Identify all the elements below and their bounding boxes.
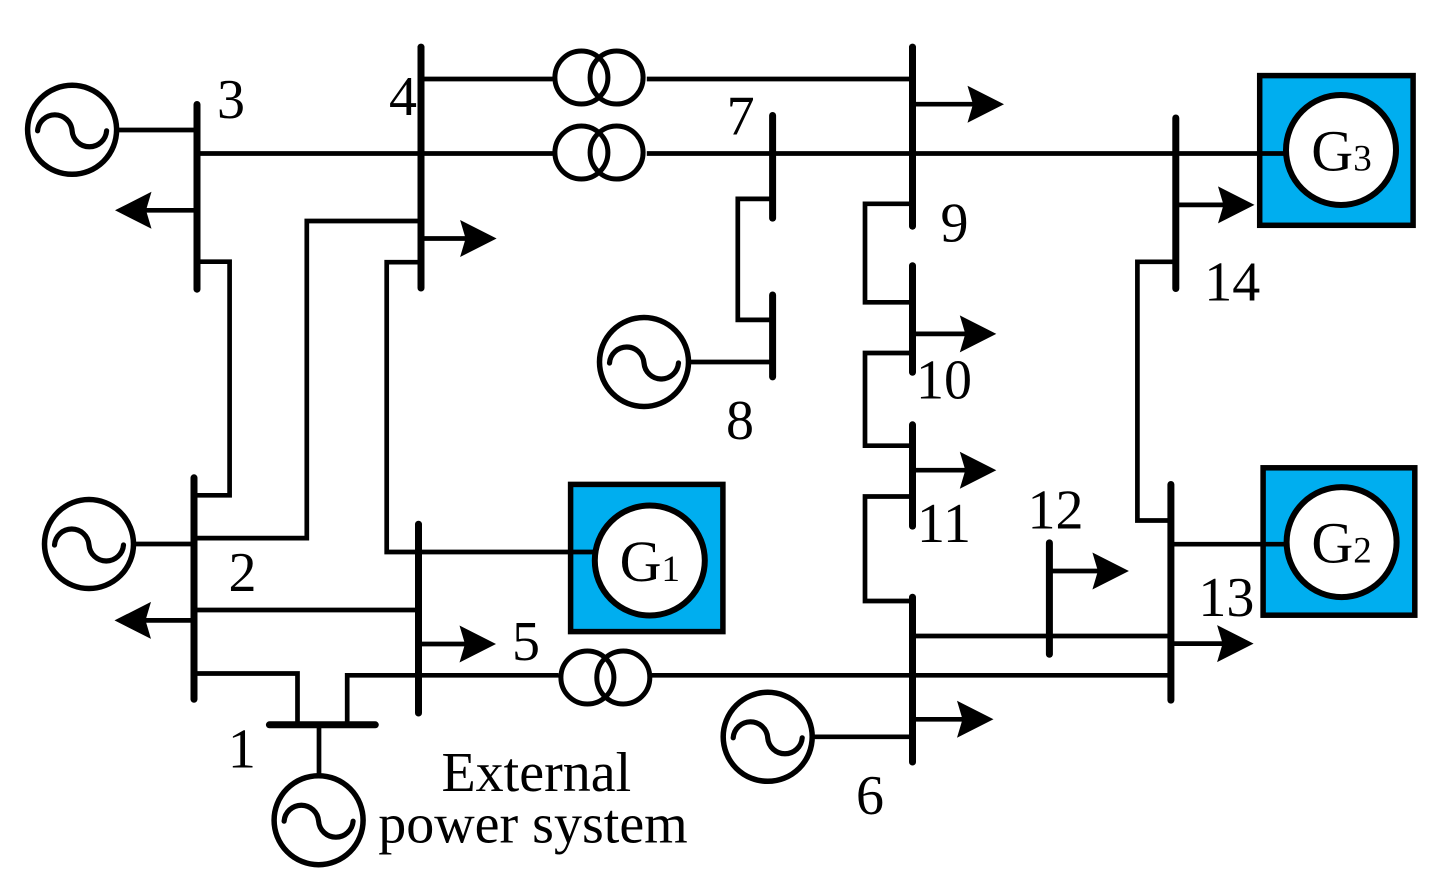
load arrow bus 4 (right) bbox=[421, 220, 497, 257]
svg-text:9: 9 bbox=[941, 192, 969, 254]
svg-text:3: 3 bbox=[217, 69, 245, 131]
label G3 bbox=[1311, 118, 1371, 183]
svg-text:4: 4 bbox=[389, 66, 417, 128]
generator symbol at bus 8 bbox=[600, 318, 689, 407]
label G1 bbox=[620, 529, 680, 594]
wire generator to bus 3 bbox=[72, 128, 197, 133]
svg-text:8: 8 bbox=[726, 390, 754, 452]
node label 3 bbox=[217, 69, 245, 131]
generator symbol at bus 6 bbox=[723, 692, 812, 781]
wire elbow bus9 to bus10 bbox=[865, 204, 913, 302]
svg-text:5: 5 bbox=[512, 611, 540, 673]
bus 3 bbox=[194, 105, 201, 290]
wire elbow bus14 to bus13 bbox=[1137, 262, 1175, 521]
wire long line transformer-bus7-bus9-bus14-G3 (y=153.5) bbox=[647, 151, 1286, 156]
bus 10 bbox=[909, 266, 916, 373]
bus 14 bbox=[1172, 118, 1179, 289]
wire elbow bus2 to bus1 bbox=[194, 674, 298, 724]
node label 14 bbox=[1204, 251, 1260, 313]
svg-text:14: 14 bbox=[1204, 251, 1260, 313]
load arrow bus 9 (right) bbox=[913, 86, 1005, 123]
wire generator to bus 8 bbox=[644, 360, 773, 365]
bus 8 bbox=[769, 295, 776, 377]
svg-text:12: 12 bbox=[1028, 479, 1084, 541]
generator G1 circle bbox=[595, 506, 705, 616]
svg-text:2: 2 bbox=[229, 542, 257, 604]
generator symbol external power system at bus 1 bbox=[274, 776, 363, 865]
svg-text:1: 1 bbox=[228, 719, 256, 781]
node label 6 bbox=[856, 765, 884, 827]
load arrow bus 12 (right) bbox=[1049, 553, 1129, 590]
generator G2 circle bbox=[1287, 487, 1397, 597]
bus 6 bbox=[909, 597, 916, 762]
wire line 2-5 bbox=[194, 608, 419, 613]
load arrow bus 2 (left) bbox=[115, 602, 195, 639]
load arrow bus 13 (right) bbox=[1171, 625, 1254, 662]
load arrow bus 14 (right) bbox=[1176, 186, 1255, 223]
generator symbol at bus 3 bbox=[28, 85, 117, 174]
svg-text:13: 13 bbox=[1198, 567, 1254, 629]
label G2 bbox=[1311, 511, 1371, 576]
wire bus13 to G2 bbox=[1171, 542, 1286, 547]
wire line 4-9 left segment (to transformer) bbox=[421, 77, 553, 82]
bus 11 bbox=[909, 425, 916, 526]
wire long line bus3-bus4-transformer (y=153.5) bbox=[197, 151, 553, 156]
generator box G1 (cyan square at bus 5) bbox=[571, 484, 723, 631]
node label 9 bbox=[941, 192, 969, 254]
bus 9 bbox=[909, 47, 916, 226]
transformer line 5-6 bbox=[561, 651, 650, 704]
wire elbow bus11 to bus6 bbox=[865, 497, 913, 602]
wire elbow bus1 to bus5 and transformer bbox=[347, 675, 558, 723]
generator box G2 (cyan square at bus 13) bbox=[1263, 468, 1415, 615]
bus 7 bbox=[769, 116, 776, 219]
bus 4 bbox=[418, 47, 425, 288]
generator symbol at bus 2 bbox=[45, 500, 134, 589]
node label 13 bbox=[1198, 567, 1254, 629]
node label 5 bbox=[512, 611, 540, 673]
node label 8 bbox=[726, 390, 754, 452]
node label 10 bbox=[916, 350, 972, 412]
wire line transformer to bus6 to bus13 (y=675.3) bbox=[652, 673, 1171, 678]
wire line 4-9 right segment (transformer to bus 9) bbox=[647, 77, 913, 82]
bus 13 bbox=[1167, 485, 1174, 701]
wire elbow bus7 to bus8 bbox=[738, 199, 773, 320]
node label 1 bbox=[228, 719, 256, 781]
load arrow bus 11 (right) bbox=[913, 452, 997, 489]
svg-text:10: 10 bbox=[916, 350, 972, 412]
wire line 6-12-13 bbox=[913, 634, 1171, 639]
bus 2 bbox=[191, 478, 198, 700]
wire external generator to bus 1 bbox=[317, 725, 322, 820]
transformer line 4-9 bbox=[555, 51, 643, 104]
generator box G3 (cyan square at bus 14) bbox=[1260, 76, 1413, 226]
load arrow bus 5 (right) bbox=[419, 626, 497, 663]
node label 4 bbox=[389, 66, 417, 128]
bus 1 (horizontal) bbox=[269, 721, 375, 728]
svg-text:power system: power system bbox=[378, 793, 688, 855]
text External power system line 1 bbox=[441, 742, 631, 804]
generator G3 circle bbox=[1286, 95, 1396, 205]
wire elbow bus3 to bus2 bbox=[194, 262, 230, 496]
load arrow bus 10 (right) bbox=[913, 315, 997, 352]
transformer line 4-7 bbox=[555, 126, 643, 179]
bus 5 bbox=[415, 524, 422, 713]
node label 7 bbox=[727, 86, 755, 148]
bus 12 bbox=[1046, 543, 1053, 654]
node label 2 bbox=[229, 542, 257, 604]
wire elbow bus4 to bus2 bbox=[194, 221, 421, 538]
svg-text:11: 11 bbox=[917, 493, 971, 555]
node label 11 bbox=[917, 493, 971, 555]
load arrow bus 3 (left) bbox=[115, 192, 197, 229]
wire generator to bus 2 bbox=[89, 542, 194, 547]
text External power system line 2 bbox=[378, 793, 688, 855]
svg-text:7: 7 bbox=[727, 86, 755, 148]
load arrow bus 6 (right) bbox=[913, 701, 994, 738]
svg-text:6: 6 bbox=[856, 765, 884, 827]
wire generator to bus 6 bbox=[768, 734, 913, 739]
node label 12 bbox=[1028, 479, 1084, 541]
wire elbow bus10 to bus11 bbox=[865, 353, 913, 446]
wire elbow bus4 to bus5 and G1 bbox=[387, 262, 596, 552]
